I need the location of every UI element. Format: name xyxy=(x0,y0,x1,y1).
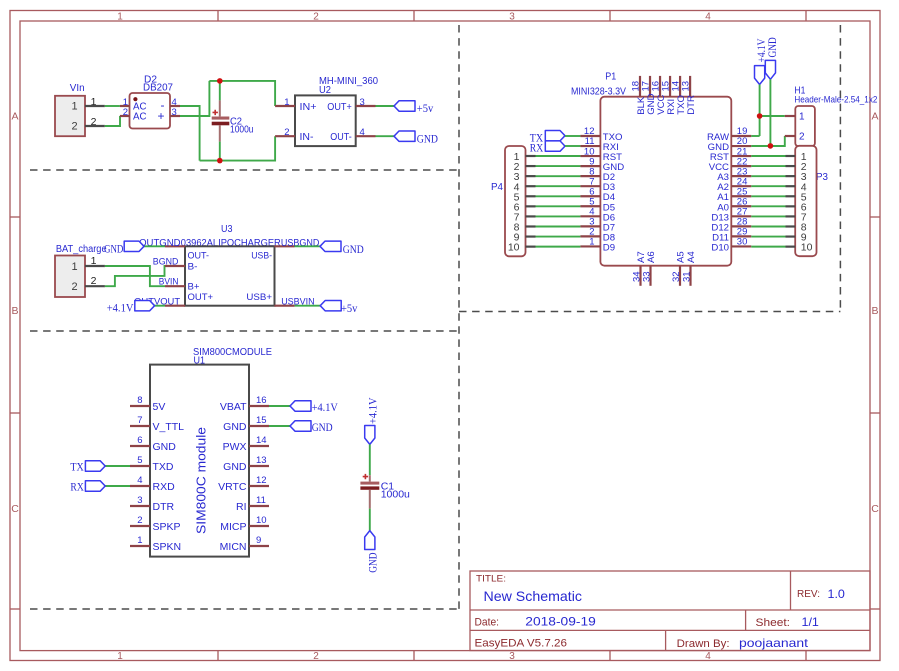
P1 pin 34 A7 (bottom) xyxy=(631,251,647,286)
net flag GND left of U3 xyxy=(104,241,144,255)
svg-text:7: 7 xyxy=(137,415,142,426)
wire U1.GND to GND flag xyxy=(269,425,290,427)
header P3 xyxy=(786,146,829,256)
net flag +4.1V at U1.VBAT xyxy=(290,401,339,414)
svg-text:REV:: REV: xyxy=(797,588,820,600)
P1 pin 17 GND (top) xyxy=(640,76,656,115)
U2 pin 1 IN+ xyxy=(275,105,295,107)
svg-text:1: 1 xyxy=(137,535,142,546)
connector VIn xyxy=(55,83,105,136)
D2 pin 3 xyxy=(170,115,180,117)
svg-text:4: 4 xyxy=(137,475,142,486)
svg-text:GND: GND xyxy=(417,134,438,146)
wire U2.OUT+ to +5v flag xyxy=(376,105,395,107)
svg-text:GND: GND xyxy=(223,421,247,433)
U1 pin 3 DTR xyxy=(130,495,174,513)
svg-text:New Schematic: New Schematic xyxy=(484,588,583,604)
net flag +4.1V at U3 xyxy=(107,301,155,315)
U3 pin OUT- (top left) xyxy=(165,245,185,247)
svg-text:GND: GND xyxy=(343,244,364,256)
svg-text:USB+: USB+ xyxy=(246,292,272,302)
svg-text:MICP: MICP xyxy=(220,521,246,533)
P1 pin 25 A1 xyxy=(717,186,751,203)
regulator module U2 MH-MINI_360 xyxy=(275,76,378,146)
header P4 xyxy=(491,146,536,256)
P1 pin 31 A4 (bottom) xyxy=(681,251,697,286)
svg-text:MINI328-3.3V: MINI328-3.3V xyxy=(571,86,626,97)
U1 pin 9 MICN xyxy=(220,535,269,553)
svg-text:1: 1 xyxy=(71,261,77,273)
svg-text:32: 32 xyxy=(671,271,682,282)
U1 pin 16 VBAT xyxy=(220,395,269,413)
svg-text:3: 3 xyxy=(509,651,515,662)
H1 pin 2 xyxy=(785,135,796,137)
svg-text:GND: GND xyxy=(153,441,177,453)
svg-text:30: 30 xyxy=(737,237,748,248)
svg-text:33: 33 xyxy=(641,271,652,282)
bridge rectifier D2 DB207 xyxy=(120,74,180,128)
connector BAT_charge xyxy=(55,244,107,297)
P1 pin 1 D9 xyxy=(580,237,615,254)
svg-text:IN+: IN+ xyxy=(300,101,317,113)
P1 pin 11 RXI xyxy=(580,136,618,153)
svg-text:B: B xyxy=(11,305,18,317)
svg-text:OUT+: OUT+ xyxy=(327,101,352,113)
wire GND flag to U3.OUT- xyxy=(144,245,165,247)
svg-text:+: + xyxy=(158,109,165,123)
U2 pin 4 OUT- xyxy=(356,135,376,137)
svg-text:10: 10 xyxy=(508,242,520,254)
wire RX flag to P1.RXI xyxy=(565,145,580,147)
svg-text:+5v: +5v xyxy=(341,303,358,315)
svg-text:V_TTL: V_TTL xyxy=(153,421,185,433)
svg-text:1: 1 xyxy=(117,651,123,662)
svg-text:OUT+: OUT+ xyxy=(188,292,214,302)
svg-text:IN-: IN- xyxy=(300,131,315,143)
P1 pin 10 RST xyxy=(580,146,622,163)
svg-text:2: 2 xyxy=(799,132,805,143)
wire RX flag to U1.RXD xyxy=(105,485,130,487)
svg-text:4: 4 xyxy=(360,127,365,138)
svg-text:5: 5 xyxy=(137,455,142,466)
wire P1.GND to H1 pin2 xyxy=(751,136,785,146)
svg-text:+4.1V: +4.1V xyxy=(368,397,380,424)
svg-text:2: 2 xyxy=(71,121,77,133)
svg-text:AC: AC xyxy=(133,111,147,123)
wire U2.OUT- to GND flag xyxy=(376,135,395,137)
P1 pin 21 RST xyxy=(710,146,751,163)
U1 pin 14 PWX xyxy=(223,435,269,453)
MCU board P1 MINI328-3.3V xyxy=(571,72,731,266)
svg-text:BAT_charge: BAT_charge xyxy=(56,244,107,255)
svg-text:DB207: DB207 xyxy=(143,82,173,93)
net flag TX at P1 xyxy=(530,131,565,145)
wire BAT_charge.1 to U3.B+ xyxy=(105,266,165,286)
svg-text:11: 11 xyxy=(256,495,266,506)
svg-text:P3: P3 xyxy=(816,171,828,183)
H1 pin 1 xyxy=(785,115,796,117)
svg-text:14: 14 xyxy=(256,435,267,446)
svg-text:TX: TX xyxy=(70,461,84,473)
svg-text:1000u: 1000u xyxy=(381,489,410,501)
P1 pin 6 D4 xyxy=(580,186,615,203)
U1 pin 1 SPKN xyxy=(130,535,181,553)
U3 pin OUT+ (bottom left) xyxy=(165,305,185,307)
svg-text:PWX: PWX xyxy=(223,441,247,453)
svg-text:VIn: VIn xyxy=(70,83,85,94)
svg-text:1.0: 1.0 xyxy=(828,587,846,601)
svg-text:U3: U3 xyxy=(221,224,233,235)
svg-text:1000u: 1000u xyxy=(230,124,254,135)
svg-text:EasyEDA V5.7.26: EasyEDA V5.7.26 xyxy=(475,637,568,649)
P1 pin 9 GND xyxy=(580,156,624,173)
svg-text:+5v: +5v xyxy=(417,103,434,115)
wire D2.3 to top rail xyxy=(180,81,209,116)
net flag RX at U1 xyxy=(70,481,105,494)
U1 pin 4 RXD xyxy=(130,475,175,493)
U1 pin 6 GND xyxy=(130,435,176,453)
U3 pin B- xyxy=(165,265,185,267)
module U1 SIM800C xyxy=(150,347,272,556)
svg-text:VRTC: VRTC xyxy=(218,481,247,493)
svg-text:RX: RX xyxy=(70,481,84,493)
svg-text:GND: GND xyxy=(223,461,247,473)
svg-text:1: 1 xyxy=(117,12,123,23)
svg-text:Date:: Date: xyxy=(475,616,500,628)
svg-text:A: A xyxy=(11,111,18,123)
wire U3.USB+ to +5v flag xyxy=(295,305,321,307)
net flag +5v at U3 xyxy=(320,301,357,316)
svg-text:A5: A5 xyxy=(675,251,686,263)
U1 pin 11 RI xyxy=(236,495,269,513)
svg-text:TXD: TXD xyxy=(153,461,174,473)
P1 pin 32 A5 (bottom) xyxy=(671,251,687,286)
svg-text:31: 31 xyxy=(681,271,692,282)
net flag +4.1V above C1 xyxy=(365,397,380,445)
svg-text:TITLE:: TITLE: xyxy=(476,574,506,585)
wire D2.4 to bottom rail xyxy=(180,106,200,161)
wires P1 right pins to P3 xyxy=(751,156,785,247)
svg-text:poojaanant: poojaanant xyxy=(739,636,809,650)
svg-text:D10: D10 xyxy=(711,242,729,253)
svg-text:OUT-: OUT- xyxy=(330,131,352,143)
svg-text:GND: GND xyxy=(104,243,123,255)
U3 pin B+ xyxy=(165,285,185,287)
U1 pin 5 TXD xyxy=(130,455,174,473)
wire C1 to GND flag xyxy=(369,509,371,531)
P1 pin 28 D12 xyxy=(711,217,751,234)
svg-text:5V: 5V xyxy=(153,401,166,413)
svg-text:D9: D9 xyxy=(603,242,615,253)
svg-text:4: 4 xyxy=(705,651,711,662)
svg-text:B+: B+ xyxy=(188,282,200,292)
svg-text:B-: B- xyxy=(188,261,198,271)
svg-text:GND: GND xyxy=(312,422,333,434)
svg-text:1/1: 1/1 xyxy=(802,615,820,629)
wire U3.USB- to GND flag xyxy=(295,245,321,247)
net flag +5v xyxy=(394,101,433,115)
svg-text:A: A xyxy=(871,111,878,123)
net flag GND at U1 xyxy=(290,421,333,434)
net flag GND at U2 xyxy=(394,131,438,146)
svg-text:DTR: DTR xyxy=(686,95,697,115)
svg-text:GND: GND xyxy=(368,553,380,573)
U1 pin 13 GND xyxy=(223,455,269,473)
svg-text:BGND: BGND xyxy=(153,256,179,267)
svg-text:3: 3 xyxy=(509,12,515,23)
P1 pin 24 A2 xyxy=(717,176,751,193)
svg-text:3: 3 xyxy=(137,495,142,506)
svg-text:Header-Male-2.54_1x2: Header-Male-2.54_1x2 xyxy=(794,94,877,105)
wire +4.1V flag to U3.OUT+ xyxy=(155,305,165,307)
U1 pin 7 V_TTL xyxy=(130,415,184,433)
svg-text:B: B xyxy=(871,305,878,317)
U2 pin 2 IN- xyxy=(275,135,295,137)
svg-text:P1: P1 xyxy=(605,72,616,83)
wire TX flag to U1.TXD xyxy=(105,465,130,467)
P1 pin 14 TXO (top) xyxy=(670,76,686,115)
D2 pin 4 xyxy=(170,105,180,107)
svg-text:13: 13 xyxy=(256,455,267,466)
net flag +4.1V above H1 xyxy=(755,38,769,85)
charger U3 03962A LIPO CHARGER xyxy=(165,224,295,306)
P1 pin 13 DTR (top) xyxy=(681,76,697,115)
wire BAT_charge.2 to U3.B- xyxy=(105,266,165,286)
wires P4 to P1 left pins xyxy=(536,156,581,247)
svg-text:Drawn By:: Drawn By: xyxy=(677,638,730,650)
svg-text:9: 9 xyxy=(256,535,261,546)
svg-text:2: 2 xyxy=(71,281,77,293)
junction node bottom rail at C2 xyxy=(217,158,223,164)
P1 pin 22 VCC xyxy=(709,156,752,173)
net flag GND below C1 xyxy=(365,531,380,573)
svg-text:GND: GND xyxy=(767,37,779,57)
svg-text:RI: RI xyxy=(236,501,247,513)
P1 pin 3 D7 xyxy=(580,217,615,234)
svg-text:DTR: DTR xyxy=(153,501,175,513)
svg-text:2: 2 xyxy=(313,651,319,662)
svg-text:1: 1 xyxy=(589,237,594,248)
P1 pin 19 RAW xyxy=(707,126,751,143)
wire VIn.2 to D2.2 xyxy=(105,116,120,126)
U1 pin 12 VRTC xyxy=(218,475,269,493)
svg-text:VBAT: VBAT xyxy=(220,401,247,413)
svg-text:2: 2 xyxy=(284,127,289,138)
svg-text:10: 10 xyxy=(801,242,813,254)
capacitor C1 1000u xyxy=(360,474,410,509)
svg-text:2018-09-19: 2018-09-19 xyxy=(525,615,596,629)
svg-text:SPKN: SPKN xyxy=(153,541,182,553)
P1 pin 8 D2 xyxy=(580,166,615,183)
svg-text:BVIN: BVIN xyxy=(159,276,179,287)
svg-text:2: 2 xyxy=(123,107,128,118)
D2 pin 1 xyxy=(120,105,130,107)
svg-text:1: 1 xyxy=(71,101,77,113)
net flag GND right of U3 xyxy=(320,241,364,256)
svg-text:16: 16 xyxy=(256,395,267,406)
svg-text:4: 4 xyxy=(705,12,711,23)
P1 pin 20 GND xyxy=(708,136,752,153)
P1 pin 26 A0 xyxy=(717,196,751,213)
svg-text:MICN: MICN xyxy=(220,541,247,553)
net flag RX at P1 xyxy=(530,141,565,155)
svg-text:USB-: USB- xyxy=(251,251,272,261)
svg-text:15: 15 xyxy=(256,415,267,426)
junction node RAW/H1.1 xyxy=(757,113,763,119)
P1 pin 29 D11 xyxy=(712,227,751,244)
wire P1.RAW to node xyxy=(751,135,759,137)
svg-text:P4: P4 xyxy=(491,181,503,193)
svg-text:Sheet:: Sheet: xyxy=(756,617,791,629)
P1 pin 16 VCC (top) xyxy=(650,76,666,115)
net flag GND above H1 xyxy=(765,37,779,79)
wire VIn.1 to D2.1 xyxy=(105,105,120,107)
P1 pin 5 D5 xyxy=(580,196,615,213)
D2 pin 2 xyxy=(120,115,130,117)
P1 pin 4 D6 xyxy=(580,207,615,224)
U1 pin 2 SPKP xyxy=(130,515,181,533)
wire TX flag to P1.TXO xyxy=(565,135,580,137)
U3 pin USB+ (bottom right) xyxy=(275,305,295,307)
svg-text:12: 12 xyxy=(256,475,267,486)
P1 pin 18 BLK (top) xyxy=(630,76,646,115)
U3 pin USB- (top right) xyxy=(275,245,295,247)
svg-text:2: 2 xyxy=(313,12,319,23)
svg-text:6: 6 xyxy=(137,435,142,446)
svg-text:13: 13 xyxy=(681,81,692,92)
svg-text:+4.1V: +4.1V xyxy=(107,303,134,315)
svg-text:3: 3 xyxy=(172,107,177,118)
P1 pin 15 RXI (top) xyxy=(660,76,676,115)
svg-text:C: C xyxy=(11,503,19,515)
svg-text:8: 8 xyxy=(137,395,142,406)
wire node to H1 pin1 xyxy=(760,115,785,117)
wire U1.VBAT to +4.1V flag xyxy=(269,405,290,407)
U1 pin 10 MICP xyxy=(220,515,269,533)
svg-text:3: 3 xyxy=(360,97,365,108)
svg-text:1: 1 xyxy=(284,97,289,108)
svg-text:SPKP: SPKP xyxy=(153,521,181,533)
svg-text:2: 2 xyxy=(137,515,142,526)
svg-text:OUT-: OUT- xyxy=(188,250,210,260)
capacitor C2 1000u xyxy=(212,81,254,161)
P1 pin 33 A6 (bottom) xyxy=(641,251,657,286)
svg-text:A4: A4 xyxy=(686,251,697,263)
junction node top rail at C2 xyxy=(217,78,223,84)
U1 pin 15 GND xyxy=(223,415,269,433)
junction node GND/H1.2 xyxy=(768,143,774,149)
wire bottom rail to U2.IN- xyxy=(200,136,276,160)
U2 pin 3 OUT+ xyxy=(356,105,376,107)
svg-text:A6: A6 xyxy=(646,251,657,263)
P1 pin 30 D10 xyxy=(711,237,751,254)
svg-text:RXD: RXD xyxy=(153,481,176,493)
svg-text:RX: RX xyxy=(530,143,544,155)
U1 pin 8 5V xyxy=(130,395,165,413)
svg-text:1: 1 xyxy=(799,112,805,123)
svg-text:10: 10 xyxy=(256,515,267,526)
wire GND flag down to GND net xyxy=(769,79,771,146)
P1 pin 27 D13 xyxy=(711,207,751,224)
svg-text:SIM800C module: SIM800C module xyxy=(193,427,208,534)
P1 pin 7 D3 xyxy=(580,176,615,193)
svg-text:C: C xyxy=(871,503,879,515)
svg-text:+4.1V: +4.1V xyxy=(312,402,339,414)
net flag TX at U1 xyxy=(70,461,105,474)
wire +4.1V flag down to RAW node xyxy=(759,85,761,137)
wire top rail to U2.IN+ xyxy=(209,81,275,106)
wire +4.1V flag to C1 xyxy=(369,444,371,475)
P1 pin 23 A3 xyxy=(717,166,751,183)
P1 pin 2 D8 xyxy=(580,227,615,244)
header H1 Header-Male-2.54_1x2 xyxy=(785,86,878,147)
P1 pin 12 TXO xyxy=(580,126,622,143)
